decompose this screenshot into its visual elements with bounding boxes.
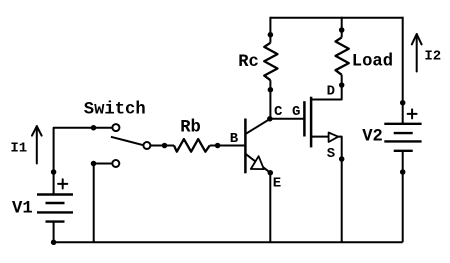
battery V2 plate 4 short	[394, 150, 413, 152]
wire: right vertical from rail to V2 + terminal	[402, 17, 404, 124]
switch terminal circle lower	[112, 160, 119, 167]
svg-text:S: S	[327, 146, 335, 162]
svg-text:V2: V2	[362, 128, 383, 147]
junction dot: Rc bottom	[268, 87, 274, 93]
svg-text:Load: Load	[352, 52, 393, 71]
resistor Rb	[174, 139, 210, 152]
junction dot: V2 top	[400, 100, 406, 106]
battery V1 plate 4 short	[46, 220, 65, 222]
svg-text:Rc: Rc	[238, 53, 259, 72]
junction dot: switch lower terminal	[91, 161, 97, 167]
junction dot: switch top wire	[91, 125, 97, 131]
svg-text:Rb: Rb	[180, 118, 201, 137]
svg-text:I2: I2	[424, 49, 441, 65]
arrowhead on Q1 emitter	[251, 156, 264, 169]
svg-text:V1: V1	[12, 199, 33, 218]
V2 plus sign	[408, 109, 417, 118]
wire: Rc top stub from rail	[269, 17, 271, 43]
battery V2 plate 2 short	[394, 132, 413, 134]
junction dot: node E	[268, 170, 274, 176]
wire: switch top wire and left drop to V1	[54, 128, 113, 195]
wire: Q1 emitter lead	[246, 154, 270, 173]
wire: node C to gate	[270, 118, 304, 120]
wire: base wire from Rb to Q1	[218, 145, 245, 147]
wire: V1 bottom to ground rail	[53, 222, 55, 243]
svg-text:C: C	[274, 104, 283, 120]
switch blade	[111, 137, 143, 145]
resistor Rc	[264, 43, 277, 80]
current arrow I1	[32, 126, 42, 163]
wire: Q2 source to bottom rail	[311, 137, 342, 243]
svg-text:Switch: Switch	[84, 101, 146, 120]
transistor Q2 channel bar	[310, 97, 313, 148]
wire: Rb to base	[210, 145, 218, 147]
wire: switch throw to Rb	[150, 145, 174, 147]
junction dot: V1 top	[51, 169, 57, 175]
wire: bottom ground rail	[54, 241, 403, 243]
V1 plus sign	[58, 179, 67, 188]
junction dot: after switch throw	[162, 143, 168, 149]
junction dot: Rb to base	[215, 143, 221, 149]
junction dot: Rc top	[268, 32, 274, 38]
arrowhead on Q2 source	[329, 133, 339, 143]
switch terminal circle throw	[143, 142, 150, 149]
junction dot: V2 bottom	[400, 169, 406, 175]
svg-text:E: E	[273, 176, 281, 192]
wire: Q1 collector lead to node C	[246, 119, 270, 134]
battery V2 plate 1 long	[384, 123, 421, 125]
junction dot: Load top	[339, 27, 345, 33]
svg-text:B: B	[230, 131, 239, 147]
wire: V2 - terminal down to bottom rail	[402, 151, 404, 243]
junction dot: node C	[267, 116, 273, 122]
wire: emitter down to bottom rail	[269, 173, 271, 243]
svg-text:I1: I1	[10, 141, 27, 157]
transistor Q1 base bar	[244, 119, 247, 174]
wire: Rc bottom to node C	[269, 80, 271, 119]
transistor Q2 gate bar	[303, 101, 306, 136]
junction dot: V1 bottom rail corner	[51, 240, 57, 246]
junction dot: source wire	[339, 156, 345, 162]
wire: Load top stub from rail	[341, 17, 343, 38]
switch terminal circle top	[112, 124, 119, 131]
svg-text:G: G	[292, 104, 300, 120]
svg-text:D: D	[327, 83, 335, 99]
wire: Load bottom to drain corner	[311, 75, 342, 100]
wire: switch lower terminal stub	[94, 164, 113, 243]
battery V1 plate 2 short	[46, 202, 65, 204]
battery V2 plate 3 long	[384, 140, 421, 142]
battery V1 plate 3 long	[37, 211, 73, 213]
resistor Load	[336, 37, 349, 74]
wire: top supply rail	[270, 17, 402, 19]
battery V1 plate 1 long	[37, 193, 73, 195]
current arrow I2	[412, 34, 422, 72]
junction dot: node D	[339, 82, 345, 88]
